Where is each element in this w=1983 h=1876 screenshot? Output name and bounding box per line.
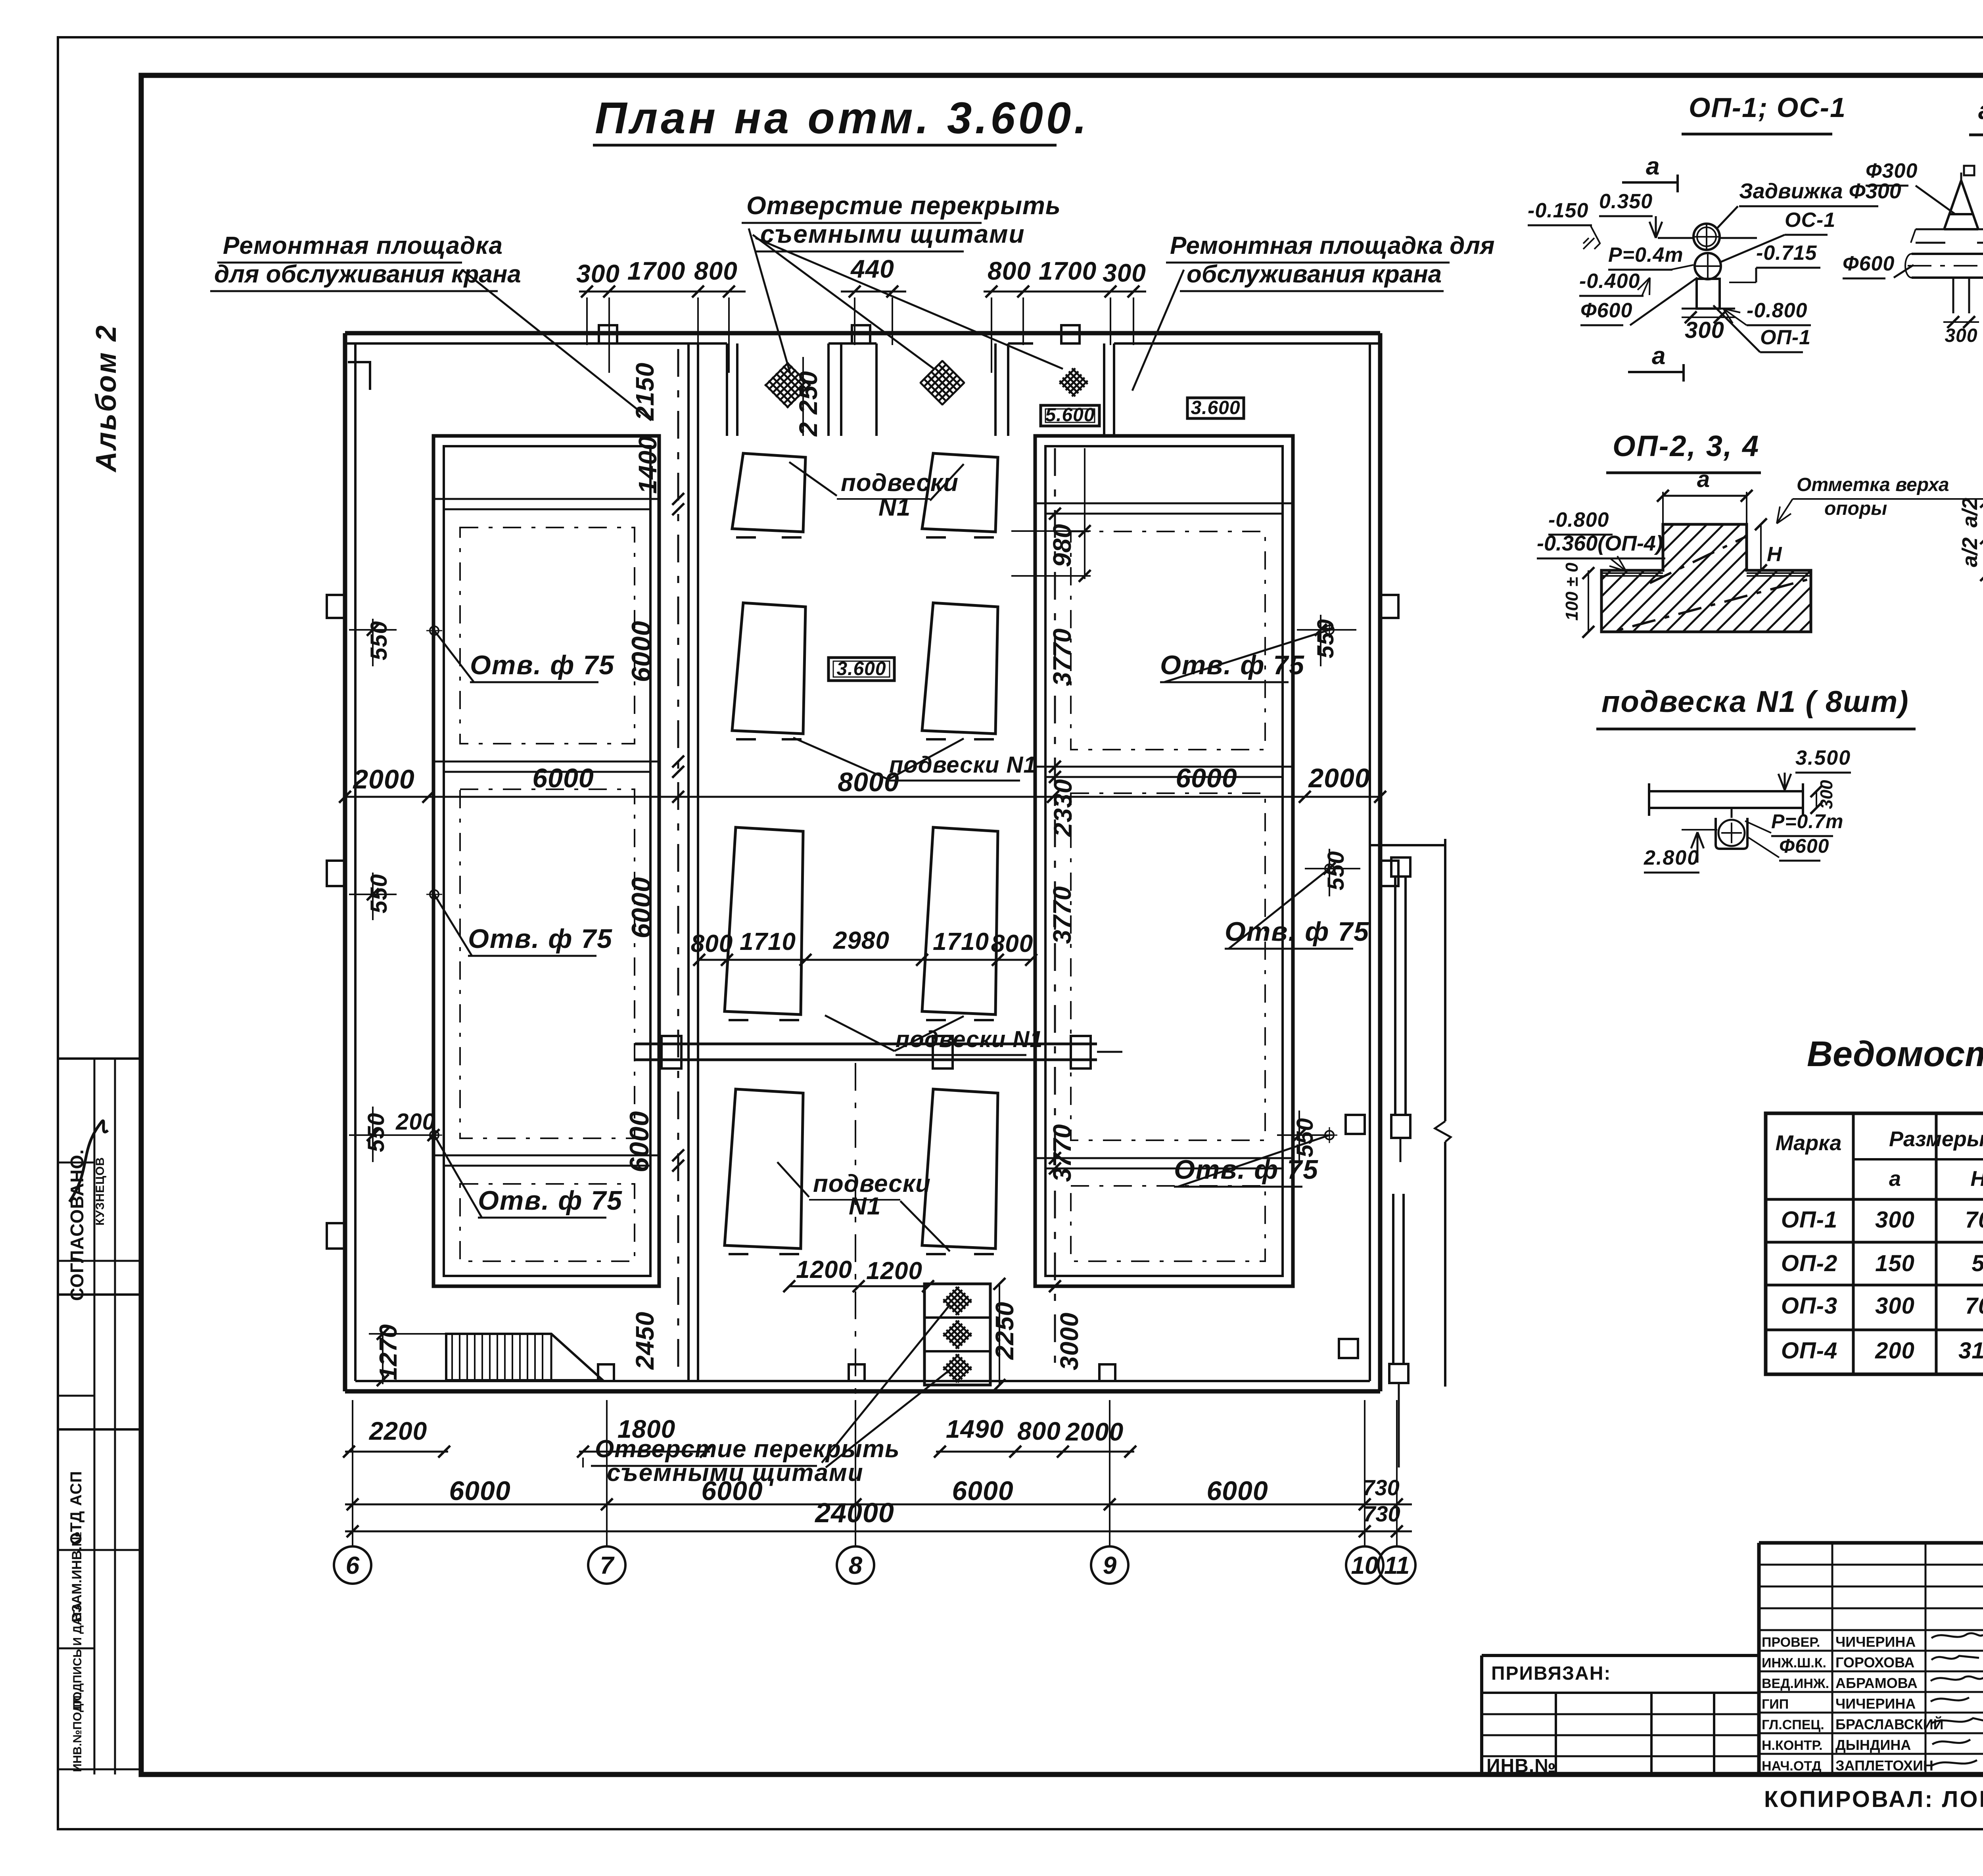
svg-text:800: 800 <box>694 257 738 285</box>
dim a pedestal <box>1663 495 1747 497</box>
svg-text:1710: 1710 <box>933 928 989 955</box>
svg-text:3.500: 3.500 <box>1795 746 1851 769</box>
svg-text:ДЫНДИНА: ДЫНДИНА <box>1835 1737 1911 1753</box>
svg-text:11: 11 <box>1384 1552 1410 1579</box>
svg-text:Отверстие перекрыть: Отверстие перекрыть <box>746 191 1061 220</box>
leader remontnaya right <box>1132 270 1184 391</box>
svg-text:313: 313 <box>1958 1338 1983 1364</box>
svg-text:обслуживания крана: обслуживания крана <box>1187 261 1442 288</box>
podveska beam <box>1649 790 1803 792</box>
building bottom wall <box>345 1389 1380 1394</box>
svg-text:2.800: 2.800 <box>1644 846 1699 869</box>
svg-text:Ведомость опор.: Ведомость опор. <box>1807 1034 1983 1074</box>
svg-text:подвеска N1 ( 8шт): подвеска N1 ( 8шт) <box>1601 685 1909 719</box>
svg-text:6: 6 <box>346 1552 360 1579</box>
svg-text:БРАСЛАВСКИЙ: БРАСЛАВСКИЙ <box>1835 1716 1944 1732</box>
svg-text:300: 300 <box>1875 1207 1915 1233</box>
right bank divider 2 <box>1035 1157 1293 1159</box>
a-a pipe lower <box>1912 253 1983 255</box>
svg-text:70: 70 <box>1965 1293 1983 1319</box>
svg-text:2250: 2250 <box>990 1302 1019 1360</box>
svg-text:6000: 6000 <box>1176 763 1237 793</box>
top dimension line <box>579 291 746 293</box>
top-left inner corner bracket <box>348 362 370 390</box>
leader podveski row2 <box>793 738 888 779</box>
svg-text:10: 10 <box>1351 1552 1379 1579</box>
shield panel row4 left <box>725 1089 803 1249</box>
svg-text:1700: 1700 <box>627 257 685 285</box>
opening partition 5 <box>1103 343 1105 436</box>
svg-text:3.600: 3.600 <box>1191 397 1240 418</box>
dim 300 OP-1 <box>1682 317 1735 318</box>
svg-text:5: 5 <box>1971 1251 1983 1276</box>
svg-text:Ф600: Ф600 <box>1580 299 1632 322</box>
svg-text:3000: 3000 <box>1055 1312 1084 1370</box>
table column lines <box>1852 1113 1855 1374</box>
building right wall <box>1378 333 1383 1391</box>
svg-text:Отметка верха: Отметка верха <box>1797 474 1949 495</box>
svg-text:300: 300 <box>1685 317 1724 343</box>
svg-text:Отв. ф 75: Отв. ф 75 <box>468 924 613 954</box>
svg-text:ОС-1: ОС-1 <box>1785 209 1835 232</box>
svg-text:1400: 1400 <box>633 436 662 494</box>
svg-text:ОП-3: ОП-3 <box>1781 1293 1837 1319</box>
svg-text:ОП-4: ОП-4 <box>1781 1338 1837 1364</box>
right side pipe lower <box>1392 1194 1394 1364</box>
svg-text:3770: 3770 <box>1048 886 1076 944</box>
svg-text:опоры: опоры <box>1824 498 1887 519</box>
svg-text:Н: Н <box>1767 543 1782 566</box>
svg-text:70: 70 <box>1965 1207 1983 1233</box>
svg-text:Ф300: Ф300 <box>1866 159 1918 182</box>
shield panel row2 left <box>732 603 805 734</box>
left bank divider 1 <box>433 761 659 763</box>
svg-text:6000: 6000 <box>952 1476 1013 1506</box>
svg-text:ОП-2, 3, 4: ОП-2, 3, 4 <box>1613 430 1760 462</box>
svg-text:3.600: 3.600 <box>836 658 886 679</box>
a-a pipe upper <box>1916 228 1945 230</box>
title block sign-off grid <box>1759 1564 1983 1566</box>
left corridor axis dashed <box>677 349 679 1376</box>
opening partition 2 <box>827 343 830 436</box>
valve symbol OP-1 <box>1693 224 1720 250</box>
hatched opening 1 <box>764 362 811 409</box>
table row lines <box>1766 1198 1983 1201</box>
svg-text:НАЧ.ОТД: НАЧ.ОТД <box>1762 1759 1821 1774</box>
svg-text:6000: 6000 <box>532 763 594 793</box>
svg-text:Ф600: Ф600 <box>1779 835 1829 857</box>
svg-text:ПРОВЕР.: ПРОВЕР. <box>1762 1635 1820 1650</box>
svg-text:ГЛ.СПЕЦ.: ГЛ.СПЕЦ. <box>1762 1717 1824 1732</box>
shield panel row2 right <box>922 603 998 734</box>
left stamp signature <box>69 1121 108 1202</box>
building left wall <box>343 333 347 1391</box>
svg-text:300: 300 <box>1945 325 1977 346</box>
right bank inner dashdot cell3 <box>1071 1186 1265 1261</box>
svg-text:N1: N1 <box>849 1193 881 1220</box>
dim 1200 1200 <box>789 1285 928 1287</box>
svg-text:N1: N1 <box>878 494 911 521</box>
svg-text:3770: 3770 <box>1048 628 1076 686</box>
svg-text:6000: 6000 <box>701 1476 763 1506</box>
svg-text:300: 300 <box>1875 1293 1915 1319</box>
svg-text:6000: 6000 <box>626 877 656 938</box>
svg-text:2450: 2450 <box>631 1312 659 1370</box>
axis 8 dashdot in plan <box>855 1063 856 1396</box>
right side small box lower <box>1339 1339 1358 1358</box>
svg-text:подвески N1: подвески N1 <box>889 752 1037 778</box>
bottom hatched boxes <box>924 1284 990 1385</box>
left bank inner dashdot cell3 <box>460 1184 635 1261</box>
right cell bank outer <box>1035 436 1293 1286</box>
leader remontnaya left <box>462 270 651 420</box>
svg-text:1270: 1270 <box>375 1324 402 1380</box>
support block OP-1 <box>1697 279 1720 309</box>
svg-text:300: 300 <box>1103 259 1146 287</box>
svg-text:200: 200 <box>1875 1338 1915 1364</box>
bottom small dims <box>345 1451 448 1453</box>
svg-text:ОП-1: ОП-1 <box>1760 326 1811 349</box>
leader podveski row1 <box>789 462 837 496</box>
svg-text:24000: 24000 <box>814 1497 894 1528</box>
svg-text:200: 200 <box>395 1109 435 1135</box>
right bank dim line <box>1084 448 1085 579</box>
pedestal dashdot <box>1586 528 1824 639</box>
svg-text:ИНЖ.Ш.К.: ИНЖ.Ш.К. <box>1762 1655 1826 1671</box>
svg-text:съемными щитами: съемными щитами <box>760 220 1025 248</box>
shield panel row1 left <box>732 453 805 532</box>
svg-text:2980: 2980 <box>833 927 890 954</box>
opening partition 1 <box>726 343 728 436</box>
svg-text:-0.360(ОП-4): -0.360(ОП-4) <box>1537 531 1663 555</box>
table outer <box>1766 1113 1983 1374</box>
svg-text:КУЗНЕЦОВ: КУЗНЕЦОВ <box>94 1157 107 1226</box>
svg-text:-0.715: -0.715 <box>1756 242 1817 265</box>
sign-off signatures <box>1931 1633 1983 1638</box>
svg-text:Размеры: Размеры <box>1889 1127 1983 1151</box>
svg-text:ОП-1: ОП-1 <box>1781 1207 1837 1233</box>
right side pipe top connection <box>1370 844 1445 846</box>
svg-text:440: 440 <box>850 255 894 283</box>
svg-text:Н: Н <box>1971 1167 1983 1191</box>
svg-text:ВЕД.ИНЖ.: ВЕД.ИНЖ. <box>1762 1676 1829 1691</box>
svg-text:Н.КОНТР.: Н.КОНТР. <box>1762 1738 1823 1753</box>
elevation mark 3.600 top <box>1187 398 1244 418</box>
svg-text:2000: 2000 <box>1308 763 1370 793</box>
axis extension verticals <box>352 1400 353 1547</box>
right corridor axis dashed <box>1054 448 1056 1376</box>
svg-text:Р=0.4т: Р=0.4т <box>1608 244 1684 267</box>
svg-text:2330: 2330 <box>1049 779 1077 837</box>
svg-text:Отв. ф 75: Отв. ф 75 <box>478 1185 623 1216</box>
svg-text:для обслуживания крана: для обслуживания крана <box>214 261 521 288</box>
svg-text:Р=0.7т: Р=0.7т <box>1771 810 1844 832</box>
right side pipe upper <box>1394 877 1396 1115</box>
svg-text:а/2: а/2 <box>1958 498 1982 528</box>
pedestal section <box>1601 524 1811 632</box>
building top wall <box>345 331 1380 336</box>
svg-text:ЧИЧЕРИНА: ЧИЧЕРИНА <box>1835 1634 1916 1650</box>
right corridor dashed ticks <box>1049 508 1061 520</box>
left bank inner dashdot cell2 <box>460 789 635 1138</box>
a-a dim 300 <box>1943 321 1979 323</box>
wall pilasters bottom <box>598 1364 614 1381</box>
svg-text:6000: 6000 <box>449 1476 510 1506</box>
svg-text:а: а <box>1889 1167 1901 1191</box>
right bank inner dashdot cell1 <box>1071 531 1265 750</box>
svg-text:1710: 1710 <box>740 928 796 955</box>
axis dim row 6000s <box>345 1504 1412 1506</box>
svg-text:1700: 1700 <box>1039 257 1097 285</box>
leaders otverstie top <box>749 228 790 373</box>
svg-text:-0.800: -0.800 <box>1747 299 1807 322</box>
svg-text:150: 150 <box>1875 1251 1915 1276</box>
svg-text:а: а <box>1697 466 1710 492</box>
svg-text:300: 300 <box>576 259 620 288</box>
svg-text:2000: 2000 <box>352 764 414 794</box>
svg-text:Альбом 2: Альбом 2 <box>90 324 122 473</box>
svg-text:-0.400: -0.400 <box>1579 270 1640 293</box>
svg-text:3770: 3770 <box>1048 1124 1076 1182</box>
leader podveski row4 <box>825 1015 894 1051</box>
svg-text:а: а <box>1652 342 1665 370</box>
svg-text:2000: 2000 <box>1065 1418 1124 1446</box>
svg-text:0.350: 0.350 <box>1599 190 1653 213</box>
svg-text:а: а <box>1646 153 1659 180</box>
svg-text:6000: 6000 <box>1206 1476 1268 1506</box>
svg-text:-0.150: -0.150 <box>1528 199 1588 222</box>
right bank divider 1 <box>1035 766 1293 768</box>
mid horizontal dimension line <box>345 796 1380 798</box>
left corridor dashed ticks <box>672 493 684 505</box>
title block outline <box>1759 1541 1983 1545</box>
shield panel row3 right <box>922 827 998 1015</box>
svg-text:100 ± 0: 100 ± 0 <box>1562 562 1582 621</box>
svg-text:КОПИРОВАЛ: ЛОГИНОВА: КОПИРОВАЛ: ЛОГИНОВА <box>1764 1786 1983 1812</box>
left bank top strip <box>433 498 659 500</box>
svg-text:1800: 1800 <box>618 1415 675 1443</box>
svg-text:730: 730 <box>1363 1501 1400 1526</box>
svg-text:2200: 2200 <box>369 1417 427 1445</box>
table header razmery split <box>1853 1158 1983 1161</box>
left corridor walls <box>687 343 690 1381</box>
left stamp strip grid <box>59 1057 141 1060</box>
left bank divider 2 <box>433 1155 659 1157</box>
leaders otverstie bottom <box>822 1305 950 1463</box>
left cell bank outer <box>433 436 659 1286</box>
svg-text:ГИП: ГИП <box>1762 1697 1789 1712</box>
svg-text:Ремонтная площадка для: Ремонтная площадка для <box>1170 232 1495 259</box>
svg-text:а · а: а · а <box>1978 96 1983 125</box>
svg-text:Ремонтная площадка: Ремонтная площадка <box>223 232 503 259</box>
wall pilasters left <box>327 595 345 618</box>
shield panel row1 right <box>922 453 998 532</box>
svg-text:Ф600: Ф600 <box>1843 252 1895 275</box>
svg-text:7: 7 <box>600 1552 615 1579</box>
svg-text:6000: 6000 <box>626 621 656 682</box>
svg-text:ИНВ.№: ИНВ.№ <box>1486 1755 1556 1776</box>
svg-text:6000: 6000 <box>624 1111 654 1172</box>
elevation mark 3.600 mid <box>828 658 894 681</box>
svg-text:а/2: а/2 <box>1958 537 1982 567</box>
elevation mark 5.600 <box>1041 405 1099 426</box>
svg-text:5.600: 5.600 <box>1045 405 1095 426</box>
right bank inner dashdot cell2 <box>1071 793 1265 1140</box>
wall pilasters right <box>1380 595 1398 618</box>
svg-text:800: 800 <box>1017 1417 1061 1445</box>
leader podveski row3 <box>777 1162 809 1197</box>
wall pilasters top <box>599 325 617 343</box>
svg-text:1490: 1490 <box>946 1415 1004 1443</box>
svg-text:1200: 1200 <box>796 1256 852 1283</box>
monorail beam <box>635 1043 1097 1045</box>
svg-text:9: 9 <box>1103 1552 1117 1579</box>
svg-text:ОП-1; ОС-1: ОП-1; ОС-1 <box>1689 92 1846 123</box>
svg-text:ГОРОХОВА: ГОРОХОВА <box>1835 1654 1914 1671</box>
right bank top strip <box>1035 503 1293 504</box>
inner dimension line 800-1710-2980 <box>699 959 1031 961</box>
top dimension extension lines <box>586 297 588 345</box>
svg-text:ОП-2: ОП-2 <box>1781 1251 1837 1276</box>
svg-text:800: 800 <box>691 930 733 957</box>
svg-text:1200: 1200 <box>866 1257 922 1285</box>
shield panel row4 right <box>922 1089 998 1249</box>
hatched opening 3 <box>1058 366 1089 398</box>
svg-text:800: 800 <box>991 930 1033 957</box>
axis circles <box>352 1531 353 1547</box>
svg-text:подвески: подвески <box>841 469 959 497</box>
svg-text:Марка: Марка <box>1776 1131 1842 1155</box>
a-a valve symbol <box>1944 180 1978 229</box>
svg-text:ИНВ.№ПОДЛ.: ИНВ.№ПОДЛ. <box>71 1692 84 1772</box>
svg-text:730: 730 <box>1362 1475 1399 1500</box>
hatched opening 2 <box>920 360 965 405</box>
svg-text:980: 980 <box>1048 524 1076 567</box>
a-a down pipe <box>1952 278 1954 313</box>
stairs <box>446 1334 603 1380</box>
podveska hanger <box>1731 808 1733 818</box>
svg-text:АБРАМОВА: АБРАМОВА <box>1835 1675 1918 1691</box>
svg-text:ЧИЧЕРИНА: ЧИЧЕРИНА <box>1835 1696 1916 1712</box>
privyazan box <box>1482 1654 1759 1657</box>
svg-text:-0.800: -0.800 <box>1548 508 1609 531</box>
svg-text:ПРИВЯЗАН:: ПРИВЯЗАН: <box>1491 1663 1611 1684</box>
svg-text:550: 550 <box>366 621 392 660</box>
svg-text:800: 800 <box>988 257 1031 285</box>
svg-text:Отв. ф 75: Отв. ф 75 <box>470 650 615 680</box>
left bank inner dashdot cell1 <box>460 528 635 744</box>
shield panel row3 left <box>725 827 803 1015</box>
svg-text:8: 8 <box>849 1552 863 1579</box>
opening partition 3 <box>875 343 878 436</box>
svg-text:ЗАПЛЕТОХИН: ЗАПЛЕТОХИН <box>1835 1757 1933 1774</box>
axis dim row 24000 <box>345 1531 1412 1533</box>
svg-text:8000: 8000 <box>838 767 899 797</box>
right side small box upper <box>1346 1115 1365 1134</box>
svg-text:2150: 2150 <box>631 363 659 421</box>
svg-text:План на отм. 3.600.: План на отм. 3.600. <box>595 93 1089 143</box>
opening partition 4 <box>1007 343 1009 436</box>
svg-text:2 250: 2 250 <box>794 371 823 437</box>
svg-text:Задвижка Ф300: Задвижка Ф300 <box>1739 179 1901 203</box>
svg-text:Отв. ф 75: Отв. ф 75 <box>1225 917 1369 947</box>
